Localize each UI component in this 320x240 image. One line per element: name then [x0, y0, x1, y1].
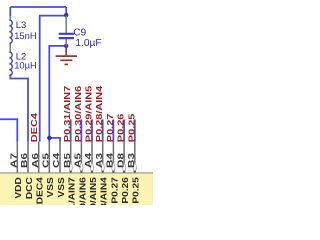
svg-text:C5: C5 [42, 152, 51, 168]
svg-text:P0.25: P0.25 [128, 113, 137, 142]
svg-text:VSS: VSS [46, 177, 55, 197]
svg-text:P0.31/AIN7: P0.31/AIN7 [68, 177, 77, 205]
svg-text:C9: C9 [73, 27, 86, 38]
svg-text:VSS: VSS [57, 177, 66, 197]
svg-text:B3: B3 [128, 152, 137, 168]
svg-text:L3: L3 [16, 19, 26, 30]
svg-text:P0.28/AIN4: P0.28/AIN4 [100, 177, 109, 205]
svg-text:P0.30/AIN6: P0.30/AIN6 [78, 177, 87, 205]
svg-text:10µH: 10µH [14, 60, 37, 71]
svg-text:B4: B4 [106, 152, 115, 168]
svg-text:B5: B5 [64, 152, 73, 168]
svg-text:VDD: VDD [14, 177, 23, 199]
svg-text:P0.27: P0.27 [106, 114, 115, 143]
svg-text:A7: A7 [10, 152, 19, 168]
svg-text:B6: B6 [21, 152, 30, 168]
svg-text:P0.26: P0.26 [121, 177, 130, 203]
svg-text:P0.29/AIN5: P0.29/AIN5 [85, 85, 94, 142]
svg-text:P0.26: P0.26 [117, 114, 126, 143]
svg-text:DCC: DCC [25, 177, 34, 199]
svg-text:A4: A4 [85, 152, 94, 168]
svg-text:DEC4: DEC4 [36, 177, 45, 204]
svg-text:P0.28/AIN4: P0.28/AIN4 [95, 85, 104, 142]
svg-text:P0.29/AIN5: P0.29/AIN5 [89, 177, 98, 205]
svg-text:A5: A5 [74, 152, 83, 168]
svg-text:P0.31/AIN7: P0.31/AIN7 [63, 86, 72, 142]
svg-text:DEC4: DEC4 [30, 112, 39, 142]
svg-text:P0.27: P0.27 [110, 177, 119, 203]
svg-text:1.0µF: 1.0µF [75, 38, 101, 49]
svg-text:P0.25: P0.25 [132, 177, 141, 203]
svg-text:D8: D8 [117, 152, 126, 168]
svg-text:A3: A3 [96, 152, 105, 168]
svg-text:C4: C4 [53, 152, 62, 168]
svg-text:A6: A6 [32, 152, 41, 168]
svg-text:15nH: 15nH [14, 30, 36, 41]
svg-text:P0.30/AIN6: P0.30/AIN6 [74, 86, 83, 142]
